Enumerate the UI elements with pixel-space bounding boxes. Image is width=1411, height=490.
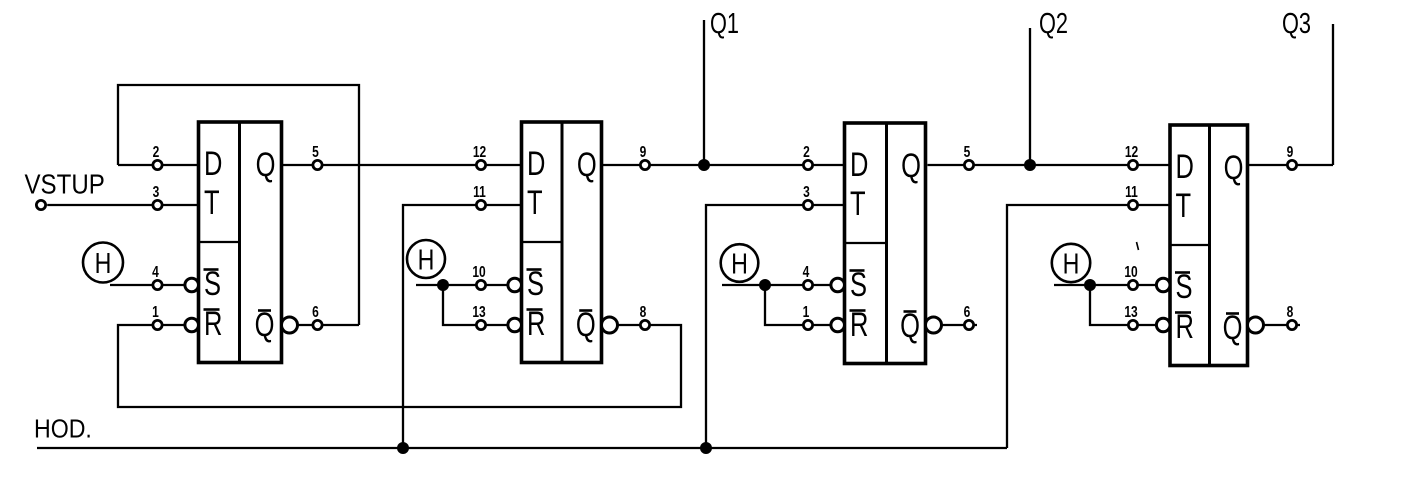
pin 1 circle R U1 (153, 320, 162, 329)
pin 8 circle Q̄ U2 (640, 320, 649, 329)
wire VSTUP input to T pin 3 of U1 (47, 204, 198, 206)
pin 10 circle S U2 (476, 280, 485, 289)
pin 11 circle T U2 (476, 200, 485, 209)
bubble S input U4 (1156, 278, 1170, 292)
wire Q3 riser (1332, 24, 1334, 165)
wire H4 branch to R pin 13 of U4 (1090, 285, 1156, 325)
pin 4 circle S U1 (153, 280, 162, 289)
svg-text:8: 8 (1287, 302, 1294, 320)
bubble S input U2 (508, 278, 522, 292)
wire Q output of U4 to Q3 riser (1248, 164, 1334, 166)
pin 8 circle Q̄ U4 (1287, 320, 1296, 329)
svg-text:Q2: Q2 (1039, 8, 1068, 40)
wire H to S pin 4 of U1 (110, 284, 185, 286)
pin 9 circle Q U2 (640, 160, 649, 169)
bubble Q̄ output U3 (926, 317, 942, 333)
junction dot H2 branch (437, 279, 449, 291)
wire Q output of U1 to D pin 12 of U2 (282, 164, 522, 166)
svg-text:2: 2 (803, 142, 810, 160)
H symbol H2 (407, 240, 445, 278)
pin 2 circle D U1 (153, 160, 162, 169)
junction dot Q2 (1024, 159, 1036, 171)
wire T pin 11 of U2 down to HOD line (403, 205, 522, 448)
bubble R input U3 (831, 318, 845, 332)
svg-text:6: 6 (964, 302, 971, 320)
wire HOD clock line (37, 447, 1007, 449)
svg-text:Q: Q (255, 307, 275, 344)
svg-text:1: 1 (803, 302, 810, 320)
junction dot H4 branch (1084, 279, 1096, 291)
svg-text:13: 13 (472, 302, 485, 320)
svg-text:D: D (204, 146, 222, 183)
svg-text:Q3: Q3 (1282, 8, 1311, 40)
svg-text:D: D (850, 147, 868, 184)
svg-text:T: T (850, 186, 866, 223)
svg-text:Q: Q (900, 308, 920, 345)
wire H2 to S pin 10 of U2 (416, 284, 508, 286)
wire D input of U1 from feedback (118, 164, 199, 166)
svg-text:12: 12 (1125, 142, 1138, 160)
svg-text:T: T (1176, 188, 1192, 225)
wire Q1 riser (703, 20, 705, 165)
svg-text:8: 8 (640, 302, 647, 320)
svg-text:3: 3 (153, 182, 160, 200)
bubble Q̄ output U4 (1248, 317, 1264, 333)
svg-text:9: 9 (640, 142, 647, 160)
wire Q̄ output of U1 to feedback (298, 324, 360, 326)
wire T pin 3 of U3 down to HOD line (706, 205, 845, 448)
wire Q2 riser (1029, 28, 1031, 165)
wire Q output of U2 to D pin 2 of U3 (node Q1) (602, 164, 845, 166)
svg-text:5: 5 (312, 142, 319, 160)
svg-text:H: H (731, 247, 748, 280)
bubble S input U1 (185, 278, 199, 292)
wire H3 branch to R pin 1 of U3 (765, 285, 831, 325)
pin 9 circle Q U4 (1287, 160, 1296, 169)
svg-text:12: 12 (473, 142, 486, 160)
H symbol H1 (83, 243, 123, 283)
terminal circle VSTUP (36, 200, 45, 209)
svg-text:10: 10 (1124, 262, 1137, 280)
svg-text:R: R (527, 306, 545, 343)
svg-text:HOD.: HOD. (34, 415, 92, 444)
flip-flop U4 box (1170, 125, 1248, 366)
svg-text:R: R (1176, 309, 1194, 346)
svg-text:R: R (850, 307, 868, 344)
svg-text:4: 4 (152, 262, 159, 280)
pin 5 circle Q U1 (313, 160, 322, 169)
pin 13 circle R U4 (1128, 320, 1137, 329)
svg-text:13: 13 (1124, 302, 1137, 320)
svg-text:D: D (527, 146, 545, 183)
svg-text:S: S (1176, 269, 1193, 306)
flip-flop U1 box (199, 122, 282, 363)
pin 11 circle T U4 (1128, 200, 1137, 209)
svg-text:S: S (850, 267, 867, 304)
pin 10 circle S U4 (1128, 280, 1137, 289)
wire H2 branch to R pin 13 of U2 (443, 285, 508, 325)
pin 6 circle Q̄ U1 (313, 320, 322, 329)
svg-text:11: 11 (473, 182, 486, 200)
svg-text:6: 6 (312, 302, 319, 320)
svg-text:4: 4 (803, 262, 810, 280)
junction dot HOD/T-U3 (700, 442, 712, 454)
bubble Q̄ output U2 (602, 317, 618, 333)
bubble R input U1 (185, 318, 199, 332)
H symbol H4 (1052, 244, 1090, 282)
wire Q output of U3 to D pin 12 of U4 (node Q2) (928, 164, 1171, 166)
junction dot H3 branch (759, 279, 771, 291)
svg-text:H: H (1063, 247, 1080, 280)
pin 1 circle R U3 (803, 320, 812, 329)
svg-text:H: H (418, 243, 435, 276)
svg-text:S: S (527, 266, 544, 303)
svg-text:Q: Q (1224, 150, 1244, 187)
wire H4 to S pin 10 of U4 (1054, 284, 1156, 286)
svg-text:Q: Q (576, 307, 596, 344)
svg-text:Q: Q (577, 147, 597, 184)
svg-text:R: R (204, 306, 222, 343)
svg-text:9: 9 (1287, 142, 1294, 160)
wire R pin 1 of U1 from U2 Q̄ loop (118, 325, 681, 407)
junction dot HOD/T-U2 (397, 442, 409, 454)
svg-text:3: 3 (803, 182, 810, 200)
bubble S input U3 (831, 278, 845, 292)
svg-text:VSTUP: VSTUP (25, 168, 105, 200)
pin 2 circle D U3 (803, 160, 812, 169)
pin 6 circle Q̄ U3 (964, 320, 973, 329)
flip-flop U2 box (522, 122, 602, 363)
svg-text:T: T (527, 185, 543, 222)
svg-text:10: 10 (472, 262, 485, 280)
svg-text:H: H (95, 246, 112, 279)
pin 3 circle T U1 (153, 200, 162, 209)
pin 4 circle S U3 (803, 280, 812, 289)
junction dot Q1 (698, 159, 710, 171)
pin 12 circle D U2 (476, 160, 485, 169)
svg-text:1: 1 (152, 302, 159, 320)
flip-flop U3 box (845, 123, 926, 364)
svg-text:D: D (1176, 149, 1194, 186)
pin 13 circle R U2 (476, 320, 485, 329)
svg-text:S: S (204, 266, 221, 303)
wire Q̄ output stub of U3 (942, 324, 978, 326)
bubble R input U4 (1156, 318, 1170, 332)
stray scan mark near U4 (1137, 242, 1139, 250)
pin 5 circle Q U3 (964, 160, 973, 169)
svg-text:Q: Q (901, 148, 921, 185)
wire Q̄ output stub of U4 (1264, 324, 1301, 326)
wire H3 to S pin 4 of U3 (722, 284, 831, 286)
svg-text:5: 5 (964, 142, 971, 160)
wire T pin 11 of U4 down to HOD line end (1007, 205, 1170, 448)
wire feedback Q̄ to D of U1 (node A) (118, 85, 359, 325)
bubble R input U2 (508, 318, 522, 332)
svg-text:T: T (204, 185, 220, 222)
svg-text:Q: Q (1223, 310, 1243, 347)
svg-text:11: 11 (1125, 182, 1138, 200)
H symbol H3 (721, 244, 759, 282)
pin 12 circle D U4 (1128, 160, 1137, 169)
svg-text:Q1: Q1 (710, 8, 739, 40)
pin 3 circle T U3 (803, 200, 812, 209)
svg-text:Q: Q (256, 147, 276, 184)
svg-text:2: 2 (153, 142, 160, 160)
bubble Q̄ output U1 (282, 317, 298, 333)
